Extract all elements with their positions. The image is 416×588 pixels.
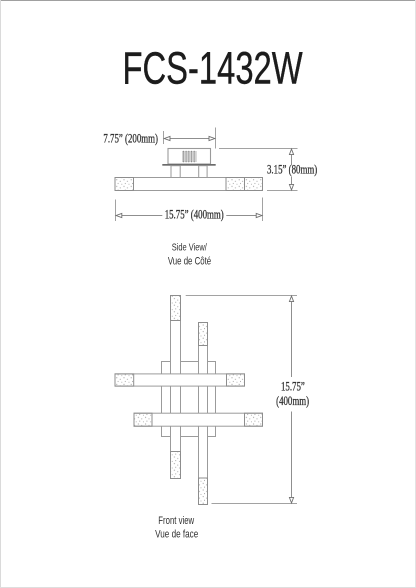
vertical bar 1 bottom LED box (171, 452, 181, 479)
canopy base plate (162, 164, 215, 166)
title FCS-1432W (123, 44, 304, 94)
front dimension label (400mm) (276, 395, 309, 409)
front dimension extension line top (186, 295, 297, 297)
front dimension 15.75in 400mm vertical line with arrows (289, 296, 293, 504)
dimension label 7.75in (200mm) (103, 132, 158, 146)
dimension 15.75in 400mm extension line left (115, 200, 117, 222)
canopy outline (front view) (162, 362, 216, 437)
dimension 3.15in 80mm vertical line with arrows (289, 149, 293, 191)
vertical bar 1 top LED box (171, 296, 181, 321)
label Vue de face (155, 528, 198, 541)
vertical bar 2 bottom LED box (199, 478, 208, 505)
svg-text:Side View/: Side View/ (172, 241, 208, 252)
label Vue de Cote (168, 255, 211, 268)
horizontal bar 1 left LED box (115, 374, 134, 386)
dimension 7.75in 200mm line with arrows (164, 136, 215, 140)
main horizontal bar (side view) (115, 178, 263, 191)
canopy wiring hatch block (182, 151, 197, 163)
svg-text:15.75” (400mm): 15.75” (400mm) (165, 208, 224, 222)
svg-text:3.15” (80mm): 3.15” (80mm) (267, 163, 318, 177)
svg-text:7.75” (200mm): 7.75” (200mm) (103, 132, 158, 146)
label Front view (158, 513, 194, 526)
svg-text:Front view: Front view (158, 513, 194, 526)
svg-text:15.75”: 15.75” (281, 380, 305, 394)
svg-text:FCS-1432W: FCS-1432W (123, 44, 304, 94)
horizontal bar 2 (front view) (134, 413, 263, 426)
bar end LED box left (side view) (115, 178, 134, 191)
horizontal bar 2 left LED box (134, 413, 152, 426)
dimension 15.75in 400mm extension line right (262, 198, 264, 222)
dimension 3.15in 80mm extension line top (219, 148, 298, 150)
svg-text:(400mm): (400mm) (276, 395, 309, 409)
canopy box (side view) (168, 149, 211, 165)
bar LED box right B (side view) (245, 178, 263, 191)
bar LED box right A (side view) (226, 178, 245, 191)
front dimension extension line bottom (212, 503, 298, 505)
horizontal bar 2 right LED box (245, 413, 263, 426)
dimension 7.75in 200mm extension line right (215, 128, 217, 149)
dimension 3.15in 80mm extension line bottom (267, 190, 298, 192)
svg-text:Vue de face: Vue de face (155, 528, 198, 541)
left stem leg (side view) (171, 166, 180, 178)
dimension 7.75in 200mm extension tick left (163, 131, 165, 144)
label Side View (172, 241, 208, 252)
horizontal bar 1 right LED box (227, 374, 245, 386)
right stem leg (side view) (199, 166, 207, 178)
vertical bar 2 top LED box (199, 323, 208, 346)
dimension label 15.75in (400mm) (165, 208, 224, 222)
front dimension label 15.75in (281, 380, 305, 394)
dimension 15.75in 400mm line with arrows (116, 213, 263, 217)
dimension label 3.15in (80mm) (267, 163, 318, 177)
svg-text:Vue de Côté: Vue de Côté (168, 255, 211, 268)
vertical bar 2 (front view) (199, 323, 208, 505)
vertical bar 1 (front view) (171, 296, 181, 479)
horizontal bar 1 (front view) (115, 374, 245, 386)
